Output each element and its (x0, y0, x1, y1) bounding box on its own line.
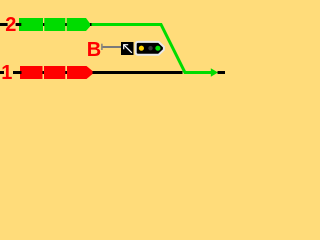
svg-text:B: B (87, 39, 101, 61)
wire line overlap at block T1-1 left (20, 71, 22, 74)
block section T2-2 (44, 18, 65, 31)
svg-text:2: 2 (5, 14, 16, 36)
wire black tail after arrow (218, 71, 226, 74)
signal B lamp yellow (139, 46, 144, 51)
wire route green line top (92, 25, 212, 73)
signal B head outline (136, 42, 164, 55)
signal B mast bar (103, 46, 121, 48)
wire track -2 line segment after label (16, 23, 92, 26)
block section T2-3 with pointed end (67, 18, 90, 31)
wire track -1 line segment after label (13, 71, 93, 74)
wire track -1 line right segment (93, 71, 183, 74)
block section T1-1 (occupied red) (20, 66, 43, 79)
wire track -2 line left segment (0, 23, 8, 26)
arrowhead route exit (211, 68, 218, 77)
svg-text:1: 1 (1, 62, 12, 84)
signal B direction arrow (124, 45, 132, 53)
block section T2-1 (occupied-clear green) (19, 18, 43, 31)
wire track -1 line left segment (0, 71, 4, 74)
wire line overlap at block T2-1 left (19, 23, 21, 26)
signal B mast base (101, 44, 102, 50)
block section T1-3 with pointed end (67, 66, 93, 79)
signal B lamp green (155, 46, 160, 51)
block section T1-2 (44, 66, 65, 79)
signal B direction plate (square with arrow) (121, 42, 134, 55)
signal B lamp off (148, 46, 152, 50)
